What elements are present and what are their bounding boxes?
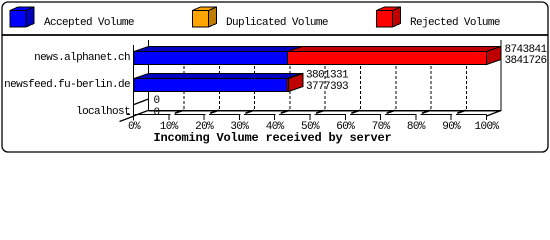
bar2 red side face: [289, 74, 304, 92]
front bottom dashed x-axis: [127, 114, 487, 116]
bar1 red side face: [487, 47, 502, 65]
legend cube orange Duplicated: [193, 7, 217, 27]
depth tick steps 10-90%: [175, 110, 466, 113]
svg-text:3801331: 3801331: [306, 70, 349, 82]
svg-text:news.alphanet.ch: news.alphanet.ch: [34, 52, 130, 64]
back y-axis: [148, 40, 150, 111]
front y-axis: [133, 45, 135, 121]
bar1 blue front face: [134, 52, 288, 65]
legend cube red Rejected: [377, 7, 401, 27]
svg-text:90%: 90%: [442, 121, 461, 133]
axis foot diagonal at origin: [120, 116, 135, 122]
bar2 red front face: [287, 79, 289, 92]
dashed vertical gridlines: [184, 46, 466, 111]
back bottom x-axis: [149, 110, 502, 112]
bar1 red top face: [288, 47, 502, 52]
depth diagonal 0%: [134, 111, 149, 117]
bar1 blue top face: [134, 47, 302, 52]
svg-text:0: 0: [154, 107, 160, 119]
svg-text:Duplicated Volume: Duplicated Volume: [226, 17, 328, 29]
outer rounded border: [2, 2, 548, 152]
back right edge: [500, 40, 502, 111]
svg-text:3777393: 3777393: [306, 81, 348, 93]
bar3 zero mark diagonal: [134, 99, 149, 105]
bar2 blue top face: [134, 74, 302, 79]
svg-text:100%: 100%: [475, 121, 500, 133]
svg-text:newsfeed.fu-berlin.de: newsfeed.fu-berlin.de: [4, 79, 130, 91]
svg-text:80%: 80%: [407, 121, 426, 133]
svg-text:Incoming Volume received by se: Incoming Volume received by server: [153, 131, 391, 145]
legend separator line: [2, 34, 548, 36]
legend cube blue Accepted: [10, 7, 34, 27]
svg-text:0: 0: [154, 95, 160, 107]
svg-text:3841726: 3841726: [505, 55, 547, 67]
bar2 red top face: [287, 74, 303, 79]
svg-text:Rejected Volume: Rejected Volume: [410, 17, 500, 29]
svg-text:0%: 0%: [128, 121, 141, 133]
bar3 zero mark back edge: [148, 99, 150, 111]
front axis ticks: [169, 115, 487, 121]
bar2 blue front face: [134, 79, 287, 92]
depth diagonal 100%: [487, 111, 502, 117]
svg-text:Accepted Volume: Accepted Volume: [44, 17, 134, 29]
bar1 red front face: [288, 52, 487, 65]
x-axis percent labels: [128, 121, 499, 133]
svg-text:localhost: localhost: [76, 106, 130, 118]
